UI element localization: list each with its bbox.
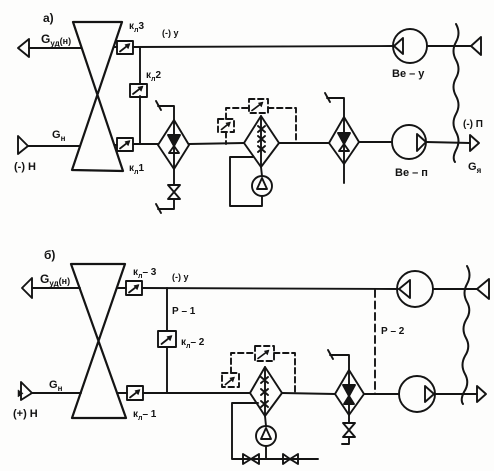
- svg-text:Gуд(н): Gуд(н): [41, 32, 71, 48]
- svg-text:Р – 1: Р – 1: [172, 306, 196, 317]
- svg-text:кл3: кл3: [129, 21, 144, 34]
- svg-text:(-) у: (-) у: [172, 272, 189, 282]
- svg-text:Gуд(н): Gуд(н): [40, 272, 70, 288]
- svg-text:(+) Н: (+) Н: [13, 408, 38, 420]
- svg-text:Ве – п: Ве – п: [395, 167, 428, 179]
- svg-text:кл2: кл2: [146, 70, 161, 83]
- svg-text:(-) П: (-) П: [463, 119, 483, 130]
- svg-text:Gн: Gн: [52, 129, 66, 143]
- svg-text:Ве – у: Ве – у: [392, 68, 425, 80]
- svg-text:кл– 1: кл– 1: [133, 409, 157, 422]
- svg-text:(-) у: (-) у: [162, 28, 179, 38]
- svg-text:Gя: Gя: [468, 161, 482, 175]
- svg-text:Р – 2: Р – 2: [381, 326, 405, 337]
- svg-text:кл– 2: кл– 2: [181, 337, 205, 350]
- svg-text:а): а): [43, 11, 54, 25]
- svg-text:Gн: Gн: [49, 379, 63, 393]
- svg-text:(-) Н: (-) Н: [14, 161, 36, 173]
- svg-text:кл– 3: кл– 3: [133, 267, 157, 280]
- svg-text:кл1: кл1: [129, 163, 144, 176]
- svg-text:б): б): [44, 248, 55, 262]
